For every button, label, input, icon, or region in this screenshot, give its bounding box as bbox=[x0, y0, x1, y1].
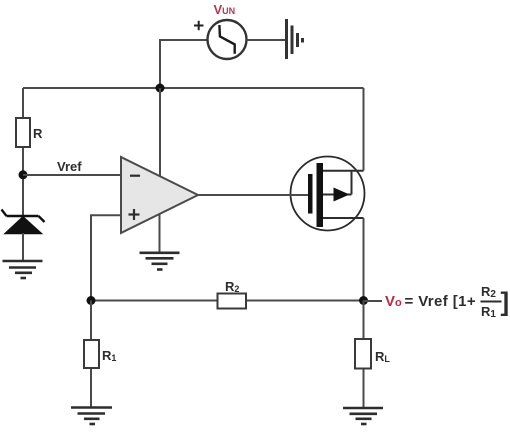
plus sign of source bbox=[194, 21, 204, 30]
wire drain to top rail bbox=[363, 88, 365, 171]
node feedback bbox=[87, 296, 96, 305]
zener diode bbox=[2, 210, 45, 234]
wire op-amp noninverting input bbox=[91, 215, 121, 300]
wire RL branch bbox=[363, 301, 365, 409]
resistor R2 bbox=[218, 294, 247, 309]
node top rail junction bbox=[156, 84, 165, 93]
MOSFET gate bar bbox=[308, 174, 313, 214]
svg-text:Vref: Vref bbox=[57, 159, 82, 174]
op-amp negative supply wire bbox=[159, 215, 161, 253]
wire feedback bottom bbox=[91, 300, 364, 302]
wire zener to ground bbox=[22, 233, 24, 261]
node output bbox=[359, 296, 368, 305]
wire left branch vertical bbox=[22, 88, 24, 216]
resistor R bbox=[16, 118, 30, 147]
chassis ground right bbox=[287, 19, 303, 59]
MOSFET source lead bbox=[323, 217, 364, 219]
op-amp minus sign bbox=[130, 175, 140, 177]
MOSFET body lead with arrow bbox=[323, 194, 352, 196]
body to drain connector bbox=[351, 171, 353, 195]
op-amp plus sign bbox=[129, 209, 140, 220]
wire source to chassis ground bbox=[247, 39, 287, 41]
node Vref bbox=[19, 170, 28, 179]
svg-text:R: R bbox=[33, 126, 43, 141]
ground below RL bbox=[343, 408, 383, 424]
MOSFET drain lead bbox=[323, 170, 364, 172]
ground below R1 bbox=[71, 408, 112, 425]
wire top rail bbox=[23, 87, 364, 89]
label Vo formula bbox=[385, 284, 509, 320]
source waveform bbox=[219, 25, 234, 54]
wire source branch bbox=[160, 40, 207, 88]
resistor R1 bbox=[84, 340, 99, 368]
ground below op-amp bbox=[140, 253, 180, 270]
wire gate inside circle bbox=[285, 194, 308, 196]
op-amp positive supply wire bbox=[159, 88, 161, 177]
MOSFET circle bbox=[291, 157, 365, 231]
wire Vref to op-amp inverting input bbox=[23, 174, 121, 176]
ground below zener bbox=[3, 261, 43, 278]
op-amp U1 bbox=[121, 157, 198, 233]
MOSFET channel bar bbox=[317, 163, 324, 227]
wire output stub bbox=[364, 300, 383, 302]
wire op-amp output to gate bbox=[198, 194, 308, 196]
wire R1 branch bbox=[90, 301, 92, 408]
svg-text:= Vref [1+: = Vref [1+ bbox=[405, 293, 477, 310]
source VUN circle bbox=[208, 20, 247, 59]
svg-text:]: ] bbox=[501, 287, 510, 317]
wire source to output node bbox=[363, 218, 365, 301]
resistor RL bbox=[355, 339, 371, 369]
